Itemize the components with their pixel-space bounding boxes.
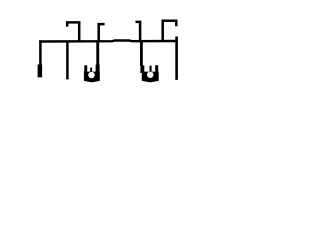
jack J1: white hole — [88, 72, 95, 79]
wire: main horizontal bus line — [39, 41, 177, 42]
jack J1: right wall — [96, 65, 100, 74]
open stub S1: vertical wire down at x=67 — [66, 41, 69, 79]
terminal T1: thick contact tip — [38, 64, 43, 77]
contact arm A: top staple, short left tick, long right leg to bus — [67, 22, 79, 41]
contact arm C: top hook with leg down to bus — [136, 22, 141, 42]
jack J2: center pin stem — [150, 66, 152, 72]
jack J1: left wall — [84, 65, 87, 73]
contact arm B: top corner with vertical wire down to bus — [99, 24, 105, 41]
jack J2: left wall — [140, 65, 144, 73]
wire: stub from bus down to jack J1 — [96, 41, 99, 65]
contact arm D: top right staple, left leg down to bus, short right tick — [163, 21, 177, 42]
jack J2: cup body with chevron bottom — [142, 72, 159, 83]
jack J2: white hole — [147, 71, 154, 78]
wire: stub from bus down to jack J2 — [140, 41, 143, 66]
wire: right vertical through bus with break above — [175, 37, 178, 80]
terminal T1: left input drop wire — [39, 40, 42, 65]
jack J1: center pin stem — [90, 68, 92, 72]
jack J2: right wall — [155, 65, 158, 73]
jack J1: cup body with chevron bottom — [84, 72, 100, 83]
